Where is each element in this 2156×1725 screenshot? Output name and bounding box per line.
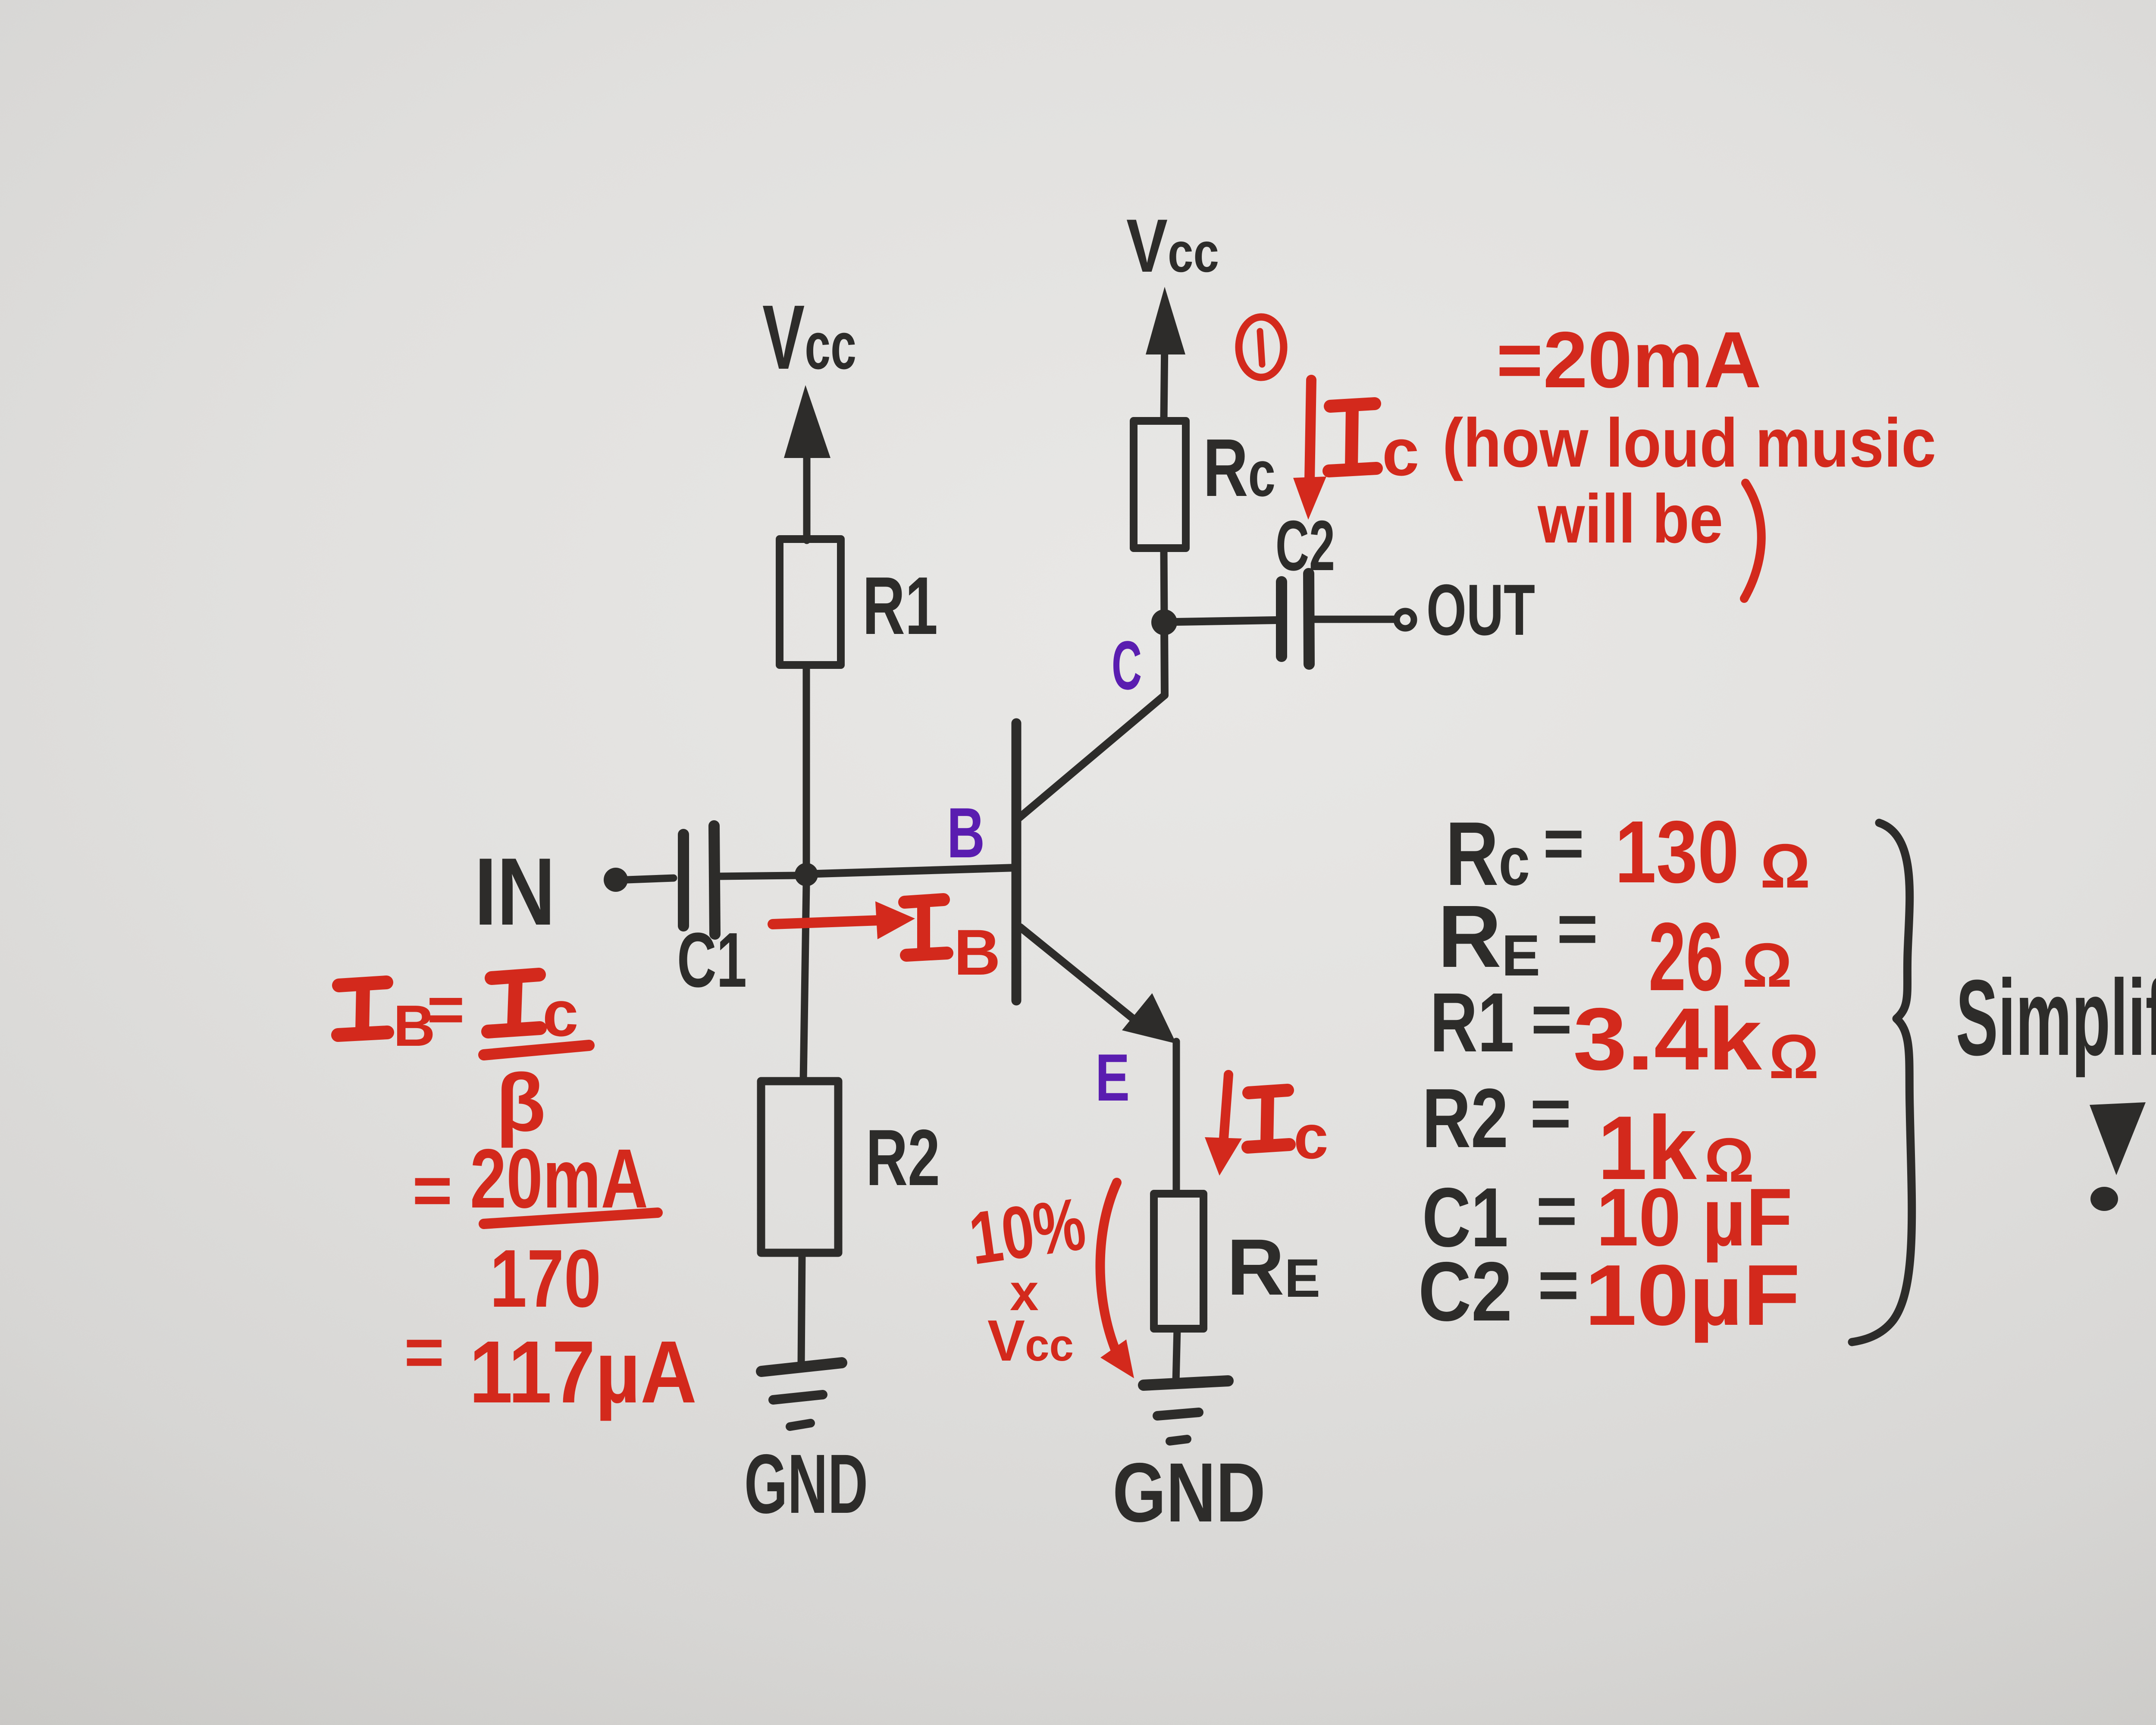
- svg-text:R1: R1: [1430, 975, 1514, 1069]
- red curved arrow (10% of Vcc across RE): [1100, 1182, 1119, 1358]
- svg-text:=: =: [1538, 1245, 1579, 1324]
- wire Rc bottom to collector node: [1164, 548, 1164, 621]
- capacitor C1: [678, 834, 689, 926]
- red arrow IB into base: [773, 920, 880, 924]
- ground (left): [761, 1363, 842, 1371]
- node junction dot (base node): [795, 863, 818, 886]
- svg-text:10µF: 10µF: [1585, 1247, 1800, 1343]
- curly brace: [1852, 823, 1912, 1342]
- exclamation mark: [2090, 1102, 2146, 1175]
- svg-text:C2: C2: [1418, 1245, 1512, 1339]
- wire node to transistor base: [818, 868, 1016, 874]
- svg-text:B: B: [954, 916, 1000, 988]
- svg-text:=20mA: =20mA: [1496, 316, 1761, 405]
- resistor Rc: [1134, 421, 1186, 548]
- svg-text:c: c: [1294, 1102, 1329, 1172]
- svg-text:Ω: Ω: [1769, 1022, 1819, 1091]
- svg-text:E: E: [1095, 1040, 1130, 1115]
- red formula IB = Ic / beta: [338, 982, 387, 1035]
- capacitor C2: [1276, 582, 1287, 656]
- resistor R1: [780, 539, 841, 665]
- red label Ic (top): [1329, 404, 1376, 471]
- wire R2 to ground: [801, 1253, 802, 1366]
- ground (right): [1144, 1381, 1228, 1385]
- node IN terminal: [604, 868, 628, 892]
- svg-text:GND: GND: [744, 1437, 868, 1531]
- power rail Vcc (left, above R1): [762, 286, 856, 388]
- wire collector vertical: [1164, 624, 1165, 695]
- wire R1 bottom to base node: [803, 665, 810, 875]
- svg-text:Ω: Ω: [1760, 831, 1810, 901]
- resistor RE: [1154, 1194, 1203, 1329]
- svg-text:(how loud music: (how loud music: [1442, 404, 1936, 481]
- svg-text:=: =: [1536, 1171, 1577, 1250]
- resistor R2: [761, 1081, 838, 1253]
- svg-text:C2: C2: [1275, 506, 1335, 585]
- svg-text:c: c: [1382, 415, 1419, 489]
- transistor collector diagonal: [1019, 695, 1165, 818]
- svg-text:117µA: 117µA: [469, 1323, 697, 1421]
- svg-text:c: c: [542, 977, 578, 1050]
- wire C1 to node: [719, 875, 798, 876]
- svg-text:OUT: OUT: [1426, 569, 1535, 650]
- svg-text:170: 170: [490, 1233, 601, 1324]
- wire Vcc arrow shaft (right): [1164, 341, 1165, 421]
- node collector junction dot: [1151, 609, 1177, 635]
- Vcc arrowhead (right): [1146, 287, 1185, 354]
- svg-text:=: =: [1543, 803, 1584, 883]
- svg-text:R2: R2: [1422, 1071, 1508, 1165]
- wire Vcc arrow shaft (left): [803, 431, 811, 540]
- wire emitter elbow down: [1173, 1041, 1180, 1194]
- Vcc arrowhead (left): [784, 385, 830, 458]
- node OUT terminal (open circle): [1397, 611, 1414, 628]
- wire IN to C1: [627, 878, 674, 880]
- svg-text:=: =: [427, 973, 465, 1045]
- red circled 1 annotation: [1239, 317, 1284, 377]
- svg-text:=: =: [1530, 1073, 1571, 1153]
- wire collector node to C2: [1176, 620, 1276, 622]
- red arrow Ic (top): [1310, 380, 1311, 481]
- svg-text:C1: C1: [677, 917, 747, 1004]
- svg-text:130: 130: [1615, 803, 1739, 901]
- svg-text:=: =: [1531, 979, 1572, 1059]
- svg-text:=: =: [412, 1151, 452, 1229]
- wire node down to R2: [803, 884, 806, 1081]
- svg-text:=: =: [404, 1313, 444, 1390]
- red label Ic (emitter): [1248, 1090, 1289, 1147]
- svg-text:R1: R1: [862, 560, 938, 652]
- svg-text:3.4k: 3.4k: [1573, 990, 1762, 1088]
- wire RE to ground: [1176, 1329, 1177, 1383]
- wire C2 to OUT: [1314, 616, 1395, 623]
- svg-text:will be: will be: [1537, 480, 1723, 557]
- svg-text:Simplified: Simplified: [1956, 957, 2156, 1078]
- svg-text:R2: R2: [866, 1113, 940, 1202]
- red arrow Ic (emitter): [1224, 1075, 1228, 1138]
- transistor emitter diagonal with arrow: [1020, 927, 1138, 1023]
- svg-text:IN: IN: [474, 838, 555, 945]
- svg-text:B: B: [947, 793, 985, 872]
- svg-text:=: =: [1557, 889, 1598, 968]
- svg-text:C: C: [1112, 627, 1142, 704]
- transistor Q1 base bar: [1012, 723, 1022, 1000]
- red label IB: [905, 900, 947, 955]
- svg-text:GND: GND: [1112, 1446, 1266, 1540]
